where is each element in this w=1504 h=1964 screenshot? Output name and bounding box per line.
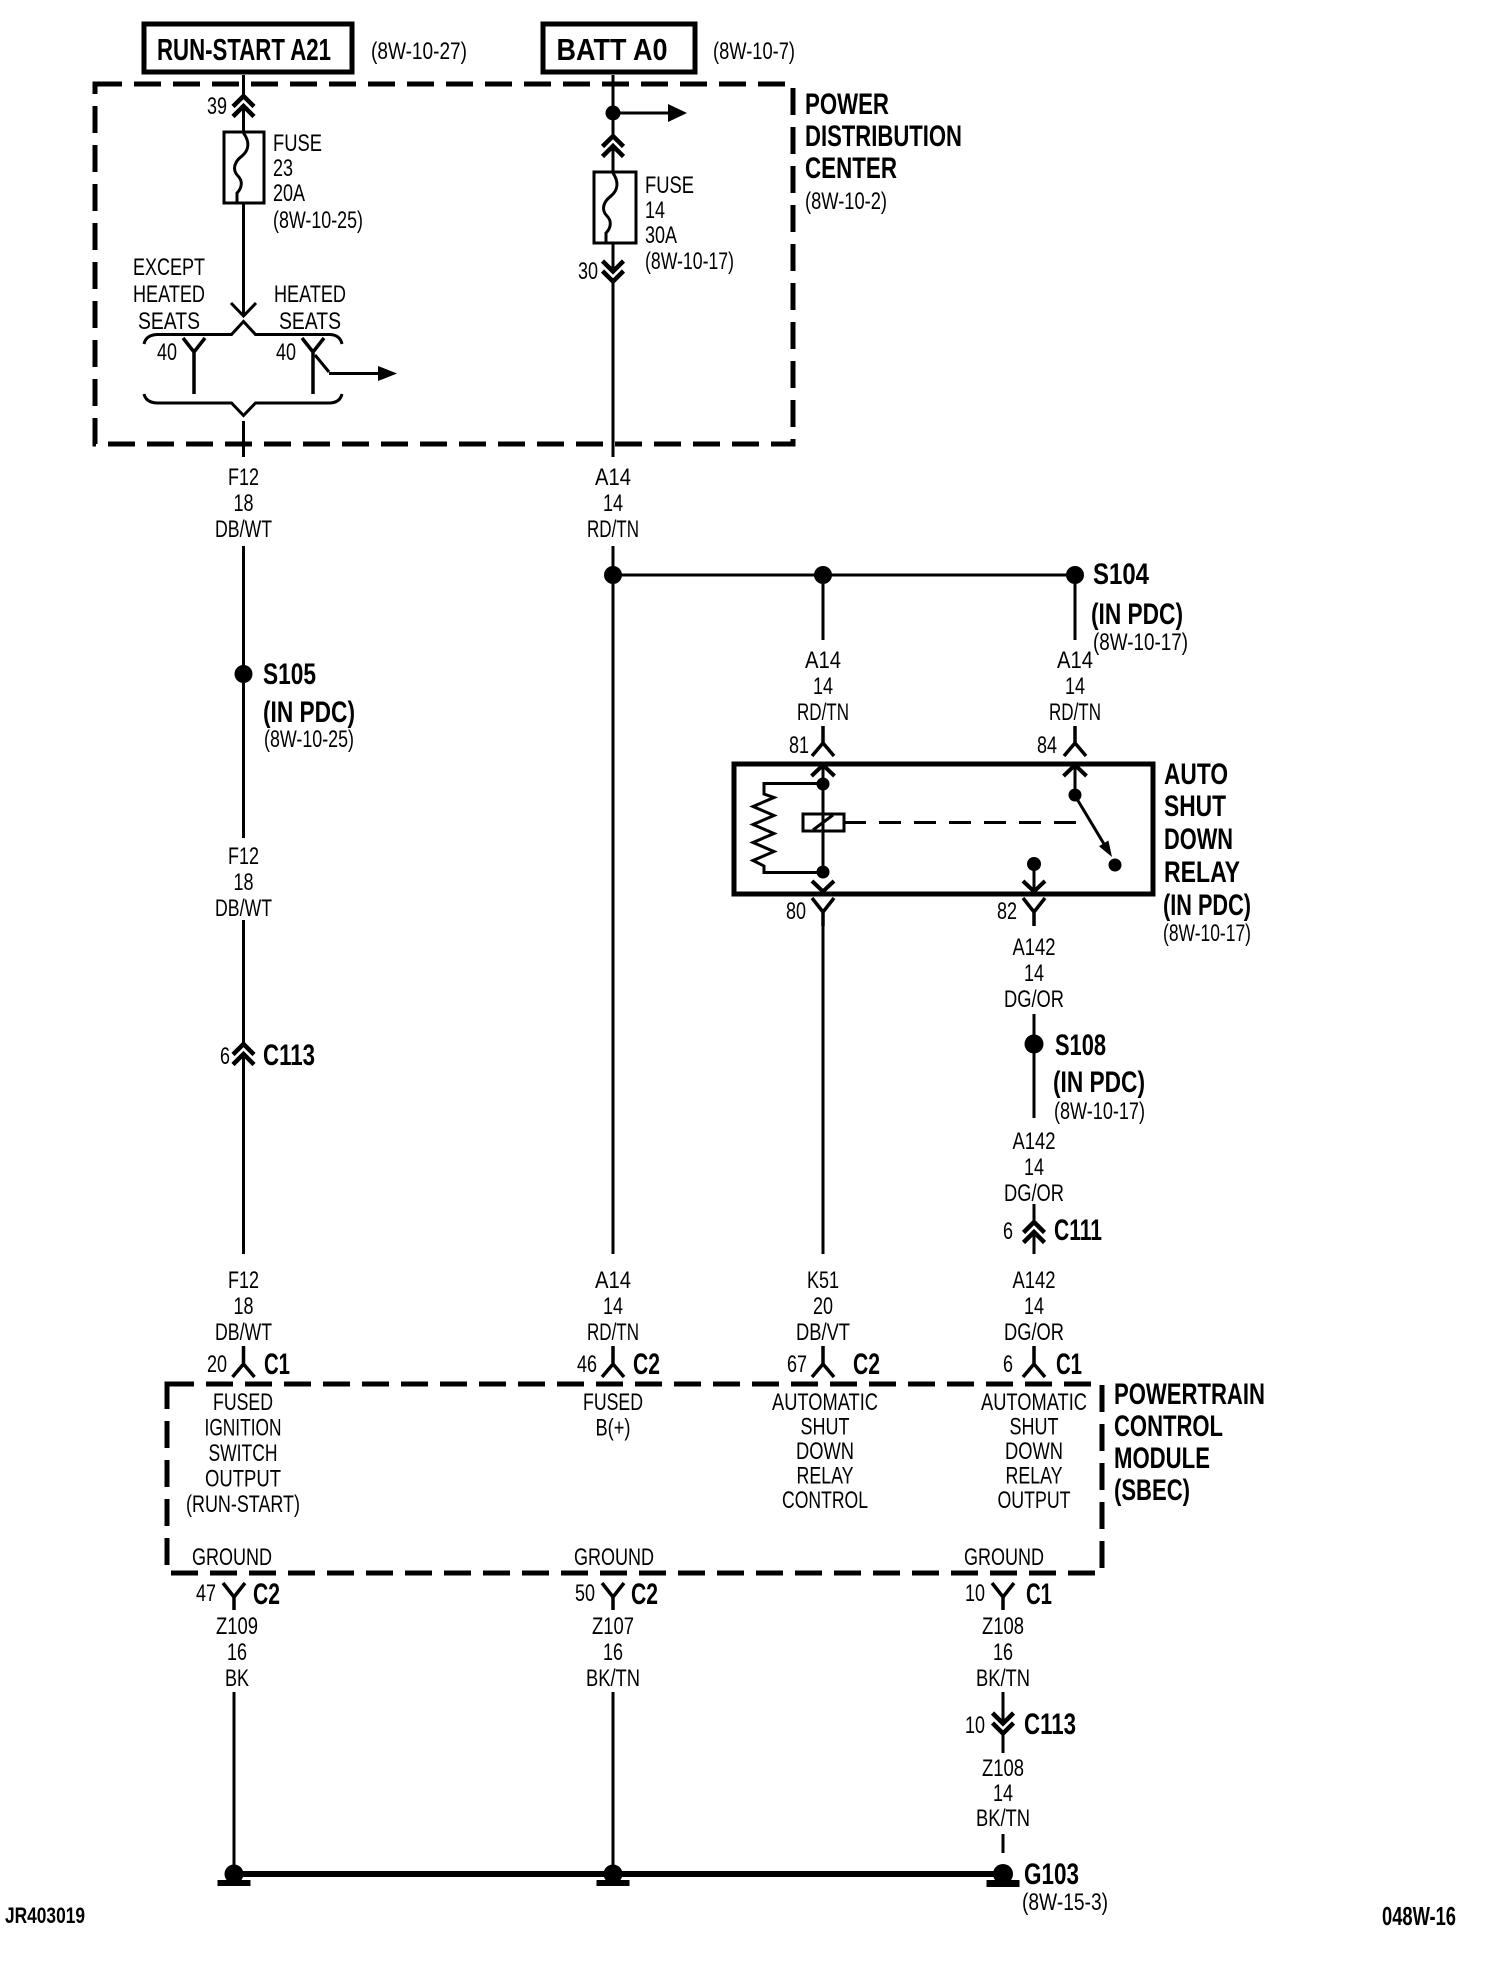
svg-text:14: 14 (1024, 1293, 1044, 1320)
connector 40 except-heated-seats (157, 338, 205, 394)
connector C113 chevrons (220, 1039, 315, 1072)
wire to C111 (1033, 1204, 1036, 1223)
svg-text:BK/TN: BK/TN (976, 1665, 1030, 1692)
svg-text:F12: F12 (228, 464, 259, 491)
svg-text:(8W-10-27): (8W-10-27) (371, 38, 467, 65)
svg-text:OUTPUT: OUTPUT (998, 1487, 1071, 1514)
svg-text:DOWN: DOWN (1005, 1438, 1063, 1465)
svg-text:40: 40 (276, 339, 296, 366)
wire label A142 14 DG/OR (1004, 1128, 1064, 1207)
svg-text:SHUT: SHUT (1164, 790, 1226, 823)
wire A14 to splice bus (612, 546, 615, 575)
svg-text:BK/TN: BK/TN (586, 1665, 640, 1692)
svg-text:50: 50 (575, 1580, 595, 1607)
svg-text:67: 67 (787, 1351, 807, 1378)
svg-text:C2: C2 (631, 1578, 658, 1611)
svg-text:14: 14 (1024, 960, 1044, 987)
svg-text:DG/OR: DG/OR (1004, 1319, 1064, 1346)
label AUTO SHUT DOWN RELAY (IN PDC) (8W-10-17) (1163, 758, 1251, 947)
fuse F23 (224, 132, 264, 203)
relay switch arm (1077, 799, 1112, 857)
wire label A14 14 RD/TN (587, 1267, 639, 1346)
svg-text:SEATS: SEATS (138, 308, 200, 335)
wire label A142 14 DG/OR (1004, 934, 1064, 1013)
svg-text:23: 23 (273, 155, 293, 182)
ground splice dot column 2 (597, 1865, 630, 1887)
svg-text:F12: F12 (228, 1267, 259, 1294)
junction dot column 3 (814, 566, 832, 584)
svg-text:RELAY: RELAY (797, 1463, 854, 1490)
wire F12 to C113 (242, 920, 245, 1045)
svg-text:(8W-10-17): (8W-10-17) (645, 248, 734, 275)
svg-text:39: 39 (207, 93, 227, 120)
ground G103 (987, 1858, 1109, 1916)
svg-text:FUSED: FUSED (583, 1389, 643, 1416)
svg-text:BATT A0: BATT A0 (557, 32, 668, 67)
label FUSE 23 20A (8W-10-25) (273, 130, 363, 234)
auto shut down relay box (734, 764, 1153, 894)
svg-text:A14: A14 (595, 1267, 631, 1294)
wire A14 down to PCM (612, 584, 615, 1254)
wire label K51 20 DB/VT (796, 1267, 850, 1346)
svg-text:DB/VT: DB/VT (796, 1319, 850, 1346)
wire C111 to PCM (1033, 1232, 1036, 1254)
svg-text:SHUT: SHUT (801, 1414, 850, 1441)
PCM pin label automatic shut down relay output (981, 1389, 1087, 1514)
svg-text:SWITCH: SWITCH (209, 1440, 278, 1467)
wire label A14 14 RD/TN (587, 464, 639, 543)
svg-text:DB/WT: DB/WT (215, 516, 272, 543)
svg-text:14: 14 (813, 673, 833, 700)
svg-text:82: 82 (997, 898, 1017, 925)
relay coil top junction dot (817, 778, 830, 791)
svg-text:30A: 30A (645, 222, 677, 249)
svg-text:F12: F12 (228, 843, 259, 870)
svg-text:14: 14 (603, 490, 623, 517)
svg-text:81: 81 (789, 732, 809, 759)
fuse F14 (594, 172, 636, 243)
relay switch pivot dot (1069, 789, 1082, 802)
connector pin 39 chevrons (207, 93, 254, 120)
svg-text:Z109: Z109 (216, 1613, 258, 1640)
label FUSE 14 30A (8W-10-17) (645, 172, 734, 275)
svg-text:FUSED: FUSED (213, 1389, 273, 1416)
relay pin 82 junction dot (1027, 857, 1041, 871)
svg-text:(8W-10-17): (8W-10-17) (1093, 629, 1188, 656)
svg-text:16: 16 (603, 1639, 623, 1666)
connector pin 10 C1 below PCM (965, 1578, 1052, 1611)
svg-text:C111: C111 (1054, 1214, 1102, 1247)
svg-text:JR403019: JR403019 (5, 1903, 85, 1928)
svg-text:6: 6 (220, 1043, 230, 1070)
label HEATED SEATS (274, 281, 346, 335)
svg-text:80: 80 (786, 898, 806, 925)
label S108 (IN PDC) (8W-10-17) (1053, 1029, 1145, 1125)
ground splice dot column 1 (218, 1865, 251, 1887)
wire Z107 to ground bus (612, 1692, 615, 1866)
wire fuse 23 to options arrow (231, 203, 256, 316)
svg-text:C2: C2 (633, 1348, 660, 1381)
relay pin 82 exit arrow (1023, 868, 1045, 892)
svg-text:47: 47 (196, 1580, 216, 1607)
svg-text:GROUND: GROUND (192, 1544, 272, 1571)
svg-text:RUN-START A21: RUN-START A21 (157, 32, 331, 67)
PCM pin label automatic shut down relay control (772, 1389, 878, 1514)
svg-text:DG/OR: DG/OR (1004, 986, 1064, 1013)
bus tag box BATT A0 (543, 24, 695, 72)
splice S104 (1066, 566, 1084, 584)
wire S105 down (242, 683, 245, 838)
svg-text:Z108: Z108 (982, 1613, 1024, 1640)
svg-text:Z108: Z108 (982, 1755, 1024, 1782)
svg-text:A142: A142 (1013, 1128, 1056, 1155)
svg-text:14: 14 (993, 1780, 1013, 1807)
svg-text:G103: G103 (1024, 1858, 1079, 1891)
PCM pin label fused ignition switch output (186, 1389, 300, 1518)
connector pin 20 C1 at PCM (207, 1346, 290, 1381)
svg-text:18: 18 (234, 490, 254, 517)
svg-text:RELAY: RELAY (1006, 1463, 1063, 1490)
svg-text:16: 16 (993, 1639, 1013, 1666)
svg-text:(RUN-START): (RUN-START) (186, 1491, 300, 1518)
svg-text:DOWN: DOWN (1164, 823, 1233, 856)
svg-text:40: 40 (157, 339, 177, 366)
wire BATT A0 to connector (612, 75, 615, 138)
powertrain control module dashed box (167, 1384, 1102, 1573)
connector pin 67 C2 at PCM (787, 1346, 880, 1381)
relay actuator dashed link (844, 821, 1088, 824)
svg-text:AUTOMATIC: AUTOMATIC (772, 1389, 878, 1416)
svg-text:CONTROL: CONTROL (782, 1487, 868, 1514)
svg-text:20: 20 (207, 1351, 227, 1378)
wire label A14 14 RD/TN (797, 647, 849, 726)
wire arrow to other battery feed (613, 104, 687, 122)
svg-text:C113: C113 (1024, 1708, 1076, 1741)
svg-text:A14: A14 (595, 464, 631, 491)
svg-text:BK: BK (225, 1665, 249, 1692)
svg-text:18: 18 (234, 869, 254, 896)
label S105 (IN PDC) (8W-10-25) (263, 658, 355, 753)
svg-text:(IN PDC): (IN PDC) (1053, 1066, 1145, 1099)
svg-text:HEATED: HEATED (274, 281, 346, 308)
connector 40 heated-seats (276, 338, 324, 394)
svg-text:CENTER: CENTER (805, 152, 897, 185)
svg-text:MODULE: MODULE (1114, 1442, 1210, 1475)
connector pin 30 chevrons (578, 258, 624, 285)
svg-text:RD/TN: RD/TN (587, 516, 639, 543)
svg-text:B(+): B(+) (596, 1415, 631, 1442)
bus tag box RUN-START A21 (144, 24, 352, 72)
svg-text:(IN PDC): (IN PDC) (263, 696, 355, 729)
svg-text:84: 84 (1037, 732, 1057, 759)
wire label F12 18 DB/WT (215, 843, 272, 922)
wire F12 to splice (242, 546, 245, 666)
wire Z109 to ground bus (233, 1692, 236, 1866)
svg-text:POWER: POWER (805, 88, 889, 121)
svg-text:GROUND: GROUND (574, 1544, 654, 1571)
svg-text:14: 14 (645, 197, 665, 224)
svg-text:(8W-15-3): (8W-15-3) (1022, 1889, 1108, 1916)
svg-text:BK/TN: BK/TN (976, 1805, 1030, 1832)
wire connector 39 to fuse 23 (242, 106, 245, 133)
svg-text:(8W-10-17): (8W-10-17) (1054, 1098, 1145, 1125)
relay coil bottom junction dot (817, 866, 830, 879)
wire S108 down (1033, 1053, 1036, 1118)
relay pin 84 entry arrow (1064, 765, 1087, 790)
svg-text:14: 14 (1024, 1154, 1044, 1181)
splice bus wire to S104 (613, 574, 1075, 577)
svg-text:SEATS: SEATS (279, 308, 341, 335)
connector pin 82 (997, 898, 1045, 926)
svg-text:Z107: Z107 (592, 1613, 634, 1640)
wire label Z107 16 BK/TN (586, 1613, 640, 1692)
svg-text:C113: C113 (263, 1039, 315, 1072)
junction dot BATT feed (606, 106, 621, 121)
svg-text:C1: C1 (1056, 1348, 1082, 1381)
svg-text:HEATED: HEATED (133, 281, 205, 308)
svg-text:A142: A142 (1013, 1267, 1056, 1294)
svg-text:RELAY: RELAY (1164, 856, 1240, 889)
svg-text:S105: S105 (263, 658, 316, 691)
connector pin 80 (786, 898, 834, 926)
svg-text:6: 6 (1003, 1351, 1013, 1378)
wire label Z108 16 BK/TN (976, 1613, 1030, 1692)
wire BK/TN to ground (1002, 1834, 1005, 1853)
wire Z108 to C113 (1002, 1692, 1005, 1723)
svg-text:CONTROL: CONTROL (1114, 1410, 1223, 1443)
svg-text:IGNITION: IGNITION (205, 1415, 282, 1442)
wire arrow to heated seats circuit (315, 355, 397, 381)
wire S104 to relay pin 84 (1074, 584, 1077, 640)
svg-text:SHUT: SHUT (1010, 1414, 1059, 1441)
relay switch contact dot (1109, 859, 1122, 872)
svg-text:A14: A14 (805, 647, 841, 674)
svg-text:DB/WT: DB/WT (215, 1319, 272, 1346)
svg-text:OUTPUT: OUTPUT (205, 1466, 281, 1493)
svg-text:C2: C2 (853, 1348, 880, 1381)
label POWERTRAIN CONTROL MODULE (SBEC) (1114, 1378, 1265, 1507)
svg-text:14: 14 (603, 1293, 623, 1320)
svg-text:C1: C1 (1026, 1578, 1052, 1611)
svg-text:6: 6 (1003, 1218, 1013, 1245)
svg-text:(8W-10-25): (8W-10-25) (264, 726, 354, 753)
svg-text:DOWN: DOWN (796, 1438, 854, 1465)
svg-text:20A: 20A (273, 180, 305, 207)
svg-text:14: 14 (1065, 673, 1085, 700)
wire label A142 14 DG/OR (1004, 1267, 1064, 1346)
wire relay pin 80 to PCM (822, 926, 825, 1254)
svg-text:POWERTRAIN: POWERTRAIN (1114, 1378, 1265, 1411)
svg-text:16: 16 (227, 1639, 247, 1666)
relay coil resistor (753, 784, 818, 873)
wire pin 82 label to S108 (1033, 1014, 1036, 1035)
wire junction to relay pin 81 (822, 584, 825, 640)
svg-text:A142: A142 (1013, 934, 1056, 961)
splice S105 (235, 665, 253, 683)
svg-text:RD/TN: RD/TN (587, 1319, 639, 1346)
svg-text:(8W-10-2): (8W-10-2) (805, 188, 887, 215)
connector pin 47 C2 below PCM (196, 1578, 280, 1611)
svg-text:048W-16: 048W-16 (1382, 1901, 1456, 1931)
PCM pin label fused B(+) (583, 1389, 643, 1442)
connector pin 81 (789, 726, 834, 759)
svg-text:30: 30 (578, 258, 598, 285)
svg-text:FUSE: FUSE (645, 172, 694, 199)
options brace bottom (144, 394, 342, 416)
svg-text:RD/TN: RD/TN (797, 699, 849, 726)
connector chevrons below BATT (603, 136, 624, 157)
svg-text:S108: S108 (1055, 1029, 1106, 1062)
wire C113 to PCM (242, 1054, 245, 1254)
relay coil symbol (803, 814, 844, 831)
wire label F12 18 DB/WT (215, 464, 272, 543)
connector pin 46 C2 at PCM (577, 1346, 660, 1381)
label POWER DISTRIBUTION CENTER (8W-10-2) (805, 88, 962, 215)
ground bus wire (234, 1871, 1003, 1877)
label EXCEPT HEATED SEATS (133, 254, 205, 335)
connector pin 50 C2 below PCM (575, 1578, 658, 1611)
svg-text:DB/WT: DB/WT (215, 895, 272, 922)
wire RUN-START A21 to connector 39 (242, 75, 245, 98)
wire label Z108 14 BK/TN (976, 1755, 1030, 1832)
svg-text:C2: C2 (253, 1578, 280, 1611)
connector C111 chevrons (1003, 1214, 1102, 1247)
wire fuse 14 to connector 30 (612, 243, 615, 271)
wire options brace through PDC edge (242, 421, 245, 457)
svg-text:10: 10 (965, 1712, 985, 1739)
svg-text:18: 18 (234, 1293, 254, 1320)
svg-text:(8W-10-7): (8W-10-7) (713, 38, 795, 65)
junction dot column 2 (604, 566, 622, 584)
svg-text:(IN PDC): (IN PDC) (1091, 598, 1183, 631)
wire C113 to ground wire (1002, 1733, 1005, 1753)
svg-text:46: 46 (577, 1351, 597, 1378)
power distribution center dashed box (95, 84, 793, 444)
svg-text:S104: S104 (1093, 558, 1149, 591)
svg-text:(8W-10-25): (8W-10-25) (273, 207, 363, 234)
svg-text:DG/OR: DG/OR (1004, 1180, 1064, 1207)
splice S108 (1025, 1035, 1044, 1054)
svg-text:(SBEC): (SBEC) (1114, 1474, 1190, 1507)
svg-text:C1: C1 (264, 1348, 290, 1381)
svg-text:(8W-10-17): (8W-10-17) (1163, 920, 1251, 947)
wire label Z109 16 BK (216, 1613, 258, 1692)
svg-text:AUTO: AUTO (1164, 758, 1228, 791)
svg-text:(IN PDC): (IN PDC) (1163, 889, 1251, 922)
connector C113 chevrons down (965, 1708, 1076, 1741)
relay pin 81 entry arrow (812, 765, 835, 872)
svg-text:A14: A14 (1057, 647, 1093, 674)
relay pin 80 exit arrow (812, 881, 834, 892)
wire connector 30 through PDC edge (612, 280, 615, 457)
wire label F12 18 DB/WT (215, 1267, 272, 1346)
svg-text:DISTRIBUTION: DISTRIBUTION (805, 120, 962, 153)
connector pin 6 C1 at PCM (1003, 1346, 1082, 1381)
svg-text:FUSE: FUSE (273, 130, 322, 157)
label S104 (IN PDC) (8W-10-17) (1091, 558, 1188, 656)
svg-text:20: 20 (813, 1293, 833, 1320)
wire label A14 14 RD/TN (1049, 647, 1101, 726)
connector pin 84 (1037, 726, 1086, 759)
svg-text:K51: K51 (807, 1267, 839, 1294)
svg-text:10: 10 (965, 1580, 985, 1607)
svg-text:EXCEPT: EXCEPT (133, 254, 205, 281)
svg-text:RD/TN: RD/TN (1049, 699, 1101, 726)
wire connector to fuse 14 (612, 146, 615, 173)
options brace top (144, 322, 342, 345)
svg-text:AUTOMATIC: AUTOMATIC (981, 1389, 1087, 1416)
svg-text:GROUND: GROUND (964, 1544, 1044, 1571)
